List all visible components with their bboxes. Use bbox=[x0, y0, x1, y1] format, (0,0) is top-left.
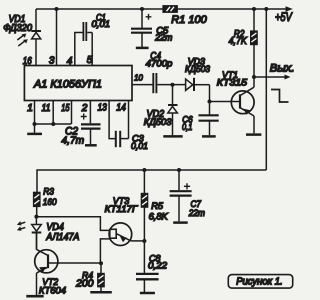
wire VD3 to base corner bbox=[210, 85, 240, 102]
transistor VT1 КТ315 bbox=[217, 70, 254, 133]
svg-text:АЛ147А: АЛ147А bbox=[46, 232, 80, 243]
node pin3 junction bbox=[55, 7, 59, 11]
ground C7 bbox=[173, 221, 188, 224]
capacitor C6 bbox=[182, 102, 219, 136]
svg-text:Вых.: Вых. bbox=[270, 63, 295, 75]
node VT3 base2 junction bbox=[142, 239, 146, 243]
svg-text:2: 2 bbox=[81, 103, 88, 114]
svg-text:КД503: КД503 bbox=[185, 64, 210, 74]
capacitor C8 bbox=[136, 241, 168, 292]
svg-text:4,7m: 4,7m bbox=[61, 135, 84, 147]
node VD2 junction bbox=[171, 83, 175, 87]
ground C8 bbox=[140, 292, 155, 295]
pin 11 lead and label bbox=[42, 101, 54, 125]
node VT2 base junction bbox=[99, 261, 103, 265]
wire +5V down branch bbox=[265, 9, 267, 170]
svg-text:4,7K: 4,7K bbox=[229, 36, 248, 47]
wire pin3 to rail bbox=[56, 9, 58, 66]
node collector junction bbox=[252, 75, 256, 79]
svg-text:КД503: КД503 bbox=[144, 117, 173, 128]
svg-text:4700p: 4700p bbox=[146, 58, 173, 69]
svg-text:16: 16 bbox=[23, 56, 32, 67]
waveform symbol bbox=[271, 90, 289, 103]
wire VT3 base1 to VT2 base node bbox=[100, 239, 109, 263]
svg-text:6,8K: 6,8K bbox=[149, 211, 169, 222]
pin 16 label bbox=[23, 56, 32, 67]
svg-text:10: 10 bbox=[134, 73, 143, 83]
resistor R5 bbox=[141, 170, 168, 241]
capacitor C7 bbox=[170, 170, 205, 221]
resistor R2 bbox=[229, 9, 258, 77]
svg-text:15: 15 bbox=[61, 103, 70, 114]
node C5 junction bbox=[140, 7, 144, 11]
op-amp U1 IC A1 К1056УП1 box bbox=[24, 66, 132, 101]
wire top rail right segment bbox=[177, 8, 286, 10]
svg-text:А1 К1056УП1: А1 К1056УП1 bbox=[33, 79, 102, 91]
pin 1 lead and label bbox=[27, 101, 34, 125]
svg-text:4: 4 bbox=[67, 56, 73, 67]
capacitor C2 bbox=[61, 114, 100, 147]
ground VT1 emitter bbox=[246, 133, 261, 136]
figure caption Рисунок 1. bbox=[228, 275, 292, 289]
resistor R3 bbox=[34, 187, 58, 217]
svg-text:Рисунок 1.: Рисунок 1. bbox=[236, 277, 283, 288]
resistor R1 bbox=[163, 6, 208, 26]
svg-text:160: 160 bbox=[43, 197, 57, 208]
diode VD4 АЛ147А bbox=[32, 217, 80, 250]
node pin1 junction bbox=[33, 122, 37, 126]
ground C2 bbox=[85, 144, 97, 147]
svg-text:200: 200 bbox=[75, 279, 94, 290]
VD1 light arrows bbox=[17, 34, 27, 46]
diode VD2 bbox=[144, 85, 178, 136]
svg-text:R3: R3 bbox=[43, 187, 54, 198]
ground C5 bbox=[136, 47, 149, 50]
svg-text:КТ315: КТ315 bbox=[217, 77, 248, 88]
photodiode VD1 bbox=[3, 9, 41, 66]
capacitor C3 bbox=[116, 131, 148, 152]
svg-text:5: 5 bbox=[87, 55, 93, 66]
transistor VT2 КТ604 bbox=[35, 233, 101, 297]
node R2 top junction bbox=[252, 7, 256, 11]
wire lower +5V rail bbox=[37, 170, 266, 192]
resistor R4 bbox=[75, 263, 104, 291]
transistor VT3 КТ117Г bbox=[105, 196, 145, 246]
node C6 junction bbox=[208, 100, 212, 104]
svg-text:R5: R5 bbox=[151, 201, 163, 212]
VD4 light arrows bbox=[17, 221, 25, 231]
ground R4 bbox=[90, 291, 112, 294]
pin 10 label and lead bbox=[132, 73, 153, 85]
capacitor C1 bbox=[75, 13, 110, 66]
capacitor C4 bbox=[146, 51, 186, 93]
svg-text:13: 13 bbox=[98, 103, 108, 114]
node R3 bottom junction bbox=[34, 215, 38, 219]
wire top rail left segment bbox=[36, 8, 163, 10]
svg-text:22m: 22m bbox=[154, 33, 172, 44]
svg-text:0,22: 0,22 bbox=[148, 261, 168, 272]
node pin11 junction bbox=[51, 122, 55, 126]
wire ground bus pins 1-11-15 bbox=[35, 123, 72, 125]
svg-text:R1 100: R1 100 bbox=[171, 14, 207, 26]
diode VD3 bbox=[185, 57, 210, 91]
+5V supply arrow bbox=[275, 6, 293, 24]
ground C6 bbox=[202, 135, 216, 138]
svg-text:11: 11 bbox=[42, 103, 51, 114]
svg-text:0,01: 0,01 bbox=[92, 19, 111, 30]
node R5 rail junction bbox=[142, 168, 146, 172]
pin 4 label bbox=[67, 56, 73, 67]
svg-text:3: 3 bbox=[49, 56, 55, 67]
pin 3 label bbox=[49, 56, 55, 67]
capacitor C5 bbox=[131, 9, 172, 47]
pin 5 label bbox=[87, 55, 93, 66]
ground pin1 bbox=[27, 124, 42, 134]
svg-text:1: 1 bbox=[27, 103, 33, 114]
svg-text:0,1: 0,1 bbox=[182, 122, 192, 133]
pin 14 lead and label bbox=[116, 101, 128, 139]
svg-text:ФД320: ФД320 bbox=[3, 23, 32, 34]
svg-text:22m: 22m bbox=[188, 208, 205, 219]
pin 15 lead and label bbox=[61, 101, 71, 125]
svg-text:+5V: +5V bbox=[275, 10, 293, 24]
pin 2 lead and label bbox=[81, 101, 91, 124]
node C7 rail junction bbox=[177, 168, 181, 172]
wire R3 node to VT3 emitter bbox=[36, 217, 109, 231]
pin 13 lead and label bbox=[98, 101, 116, 139]
svg-text:КТ117Г: КТ117Г bbox=[105, 204, 138, 215]
ground VD2 bbox=[163, 135, 182, 138]
output arrow Вых. bbox=[254, 63, 295, 80]
ground VT2 emitter bbox=[26, 295, 43, 298]
node +5V branch junction bbox=[264, 7, 268, 11]
svg-text:14: 14 bbox=[116, 103, 126, 114]
svg-text:КТ604: КТ604 bbox=[39, 285, 66, 296]
svg-text:0,01: 0,01 bbox=[131, 141, 148, 152]
